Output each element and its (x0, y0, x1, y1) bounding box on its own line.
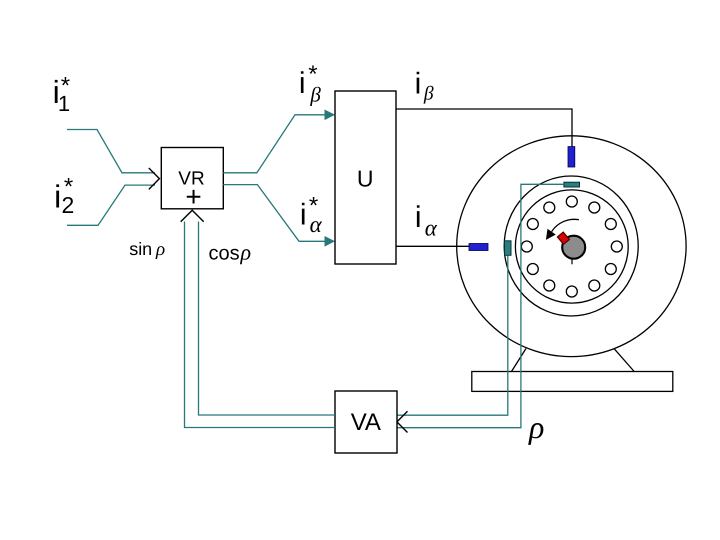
svg-text:i: i (300, 199, 307, 232)
wire VA upper output to VR bottom (cos path) (199, 222, 336, 416)
component U box (335, 91, 396, 264)
red rotor flux marker (557, 232, 569, 244)
svg-text:*: * (61, 72, 70, 99)
sensor blue top (vertical) (568, 147, 575, 167)
motor pedestal right leg (614, 348, 634, 371)
svg-text:i: i (415, 68, 422, 101)
shaft tick below rotor hub (571, 259, 573, 265)
wire teal left sensor to VA upper input (397, 256, 508, 416)
svg-text:ρ: ρ (528, 409, 544, 445)
wire i1* input zigzag (67, 130, 155, 173)
wire VR to U upper (i_beta* path) (223, 115, 326, 173)
label i_beta (right of U) (415, 68, 434, 105)
svg-text:ρ: ρ (155, 239, 165, 260)
motor base plate (472, 372, 673, 392)
svg-text:sin: sin (129, 239, 152, 259)
svg-text:i: i (299, 67, 306, 100)
wire VA lower output to VR bottom (sin path) (185, 222, 336, 428)
rotor hub (gray shaft circle) (562, 236, 585, 259)
label sin rho (129, 239, 165, 260)
rotor slot circles (12) (521, 196, 622, 297)
label i_alpha* (300, 192, 323, 237)
sensor blue left (horizontal) (469, 244, 488, 251)
label i_beta* (299, 61, 322, 107)
arrow into VR left (black chevron) (149, 168, 160, 189)
rotation arrowhead (546, 229, 556, 240)
motor outer circle (457, 136, 686, 357)
svg-text:β: β (309, 83, 321, 107)
wire VR to U lower (i_alpha* path) (223, 185, 326, 242)
arrowhead into U lower (325, 236, 336, 247)
motor pedestal left leg (512, 349, 527, 372)
motor stator bore circle (504, 176, 638, 316)
wire U output i_beta to top sensor (396, 109, 572, 147)
svg-text:U: U (357, 165, 374, 191)
rotation arrow arc (552, 219, 579, 231)
sensor teal left (vertical) (505, 241, 512, 256)
wire U output i_alpha to left sensor (396, 245, 469, 247)
sensor teal top (horizontal) (564, 182, 580, 187)
wire i2* input zigzag (67, 185, 155, 225)
label i1* (53, 72, 71, 116)
svg-text:i: i (415, 201, 422, 234)
arrow into VR bottom (black chevron) (181, 210, 204, 222)
motor rotor circle (515, 190, 628, 303)
svg-text:*: * (64, 173, 73, 200)
label i2* (54, 173, 74, 218)
label cos rho (209, 240, 252, 265)
svg-text:cos: cos (209, 243, 240, 265)
label i_alpha (right of U) (415, 201, 438, 241)
svg-text:VA: VA (351, 409, 381, 436)
arrowhead into U upper (325, 110, 336, 121)
arrow into VA right (black chevron) (397, 411, 408, 432)
wire teal top sensor to VA lower input (397, 184, 564, 427)
component VA box (335, 391, 397, 453)
svg-text:i: i (54, 178, 61, 214)
component VR box (161, 148, 223, 213)
svg-text:ρ: ρ (240, 240, 252, 265)
svg-text:α: α (310, 212, 323, 237)
svg-text:α: α (425, 216, 438, 241)
svg-text:β: β (423, 84, 434, 105)
svg-text:+: + (185, 181, 201, 212)
